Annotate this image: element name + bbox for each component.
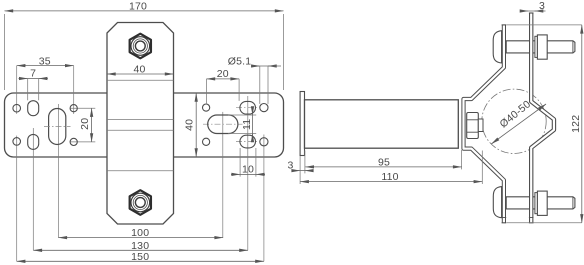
svg-text:3: 3 bbox=[287, 160, 293, 172]
extension 11 bottom bbox=[228, 133, 256, 135]
right plate circles small bbox=[203, 104, 210, 111]
crossed circle bottom bbox=[70, 138, 77, 145]
svg-text:Ø5.1: Ø5.1 bbox=[228, 56, 252, 68]
right circle column: hole top bbox=[260, 104, 268, 112]
center line right oblong column bbox=[247, 96, 249, 250]
center line crossed circles bbox=[73, 66, 75, 114]
extension 95 right bbox=[461, 150, 463, 169]
extension 10 left bbox=[239, 148, 241, 177]
extension 20 left bottom bbox=[70, 141, 95, 143]
bolt bottom: hex nut bbox=[130, 190, 151, 215]
extension line 7 left bbox=[27, 79, 29, 101]
svg-text:40: 40 bbox=[184, 119, 196, 131]
dimension 150 bbox=[17, 260, 264, 262]
base plate front view bbox=[5, 93, 284, 157]
dimension 100 bbox=[58, 237, 223, 239]
svg-text:110: 110 bbox=[381, 171, 398, 183]
center line left slot column bbox=[32, 128, 34, 250]
slot left bottom bbox=[28, 134, 39, 149]
bolt shank top bbox=[506, 41, 575, 53]
hole left circle bottom bbox=[13, 138, 21, 146]
hex nut top side view bbox=[537, 35, 547, 59]
svg-text:122: 122 bbox=[570, 115, 582, 133]
extension 11 top bbox=[228, 114, 256, 116]
clamp strap front (vertical bracket) bbox=[107, 23, 174, 225]
svg-text:20: 20 bbox=[79, 118, 91, 130]
washer top bbox=[535, 36, 538, 57]
center line big slot bbox=[57, 104, 59, 238]
dimension 7 arrows bbox=[19, 78, 28, 80]
extension 110 right bbox=[481, 151, 483, 185]
bolt top: hex nut bbox=[130, 34, 151, 59]
bracket slot line upper bbox=[107, 119, 174, 121]
dimension 11 bbox=[252, 107, 254, 116]
extension 20 left top bbox=[70, 107, 95, 109]
dimension 3 (strap thickness top) bbox=[522, 10, 529, 12]
strap tick marks bbox=[502, 217, 507, 219]
extension line 170 right bbox=[283, 14, 285, 90]
center line right circles bbox=[263, 135, 265, 262]
svg-text:100: 100 bbox=[131, 227, 149, 239]
bracket slot line lower bbox=[107, 129, 174, 131]
tube body bbox=[305, 100, 459, 148]
washer bottom bbox=[535, 193, 538, 214]
small oblong right top bbox=[240, 101, 256, 114]
dimension 40 plate height bbox=[195, 93, 197, 157]
strap end cap lines bbox=[529, 12, 534, 14]
big oblong right bbox=[208, 115, 238, 134]
right strap (clamp around pipe) bbox=[531, 13, 554, 223]
carriage bolt head top bbox=[493, 31, 501, 63]
hex nut bottom side view bbox=[537, 191, 547, 215]
svg-text:10: 10 bbox=[242, 164, 254, 176]
svg-text:170: 170 bbox=[129, 1, 147, 13]
horizontal center right small oblong top bbox=[236, 107, 259, 109]
bolt shank bottom bbox=[506, 197, 575, 209]
dimension 40 bracket bbox=[107, 73, 174, 75]
bracket bend line bottom bbox=[107, 170, 174, 172]
horizontal center right small oblong bottom bbox=[236, 141, 259, 143]
left strap (hat profile) bbox=[464, 25, 504, 223]
dimension 122 bbox=[581, 25, 583, 223]
dimension 10 bbox=[231, 173, 240, 175]
svg-text:95: 95 bbox=[378, 157, 390, 169]
dimension 130 bbox=[33, 249, 248, 251]
center line right big oblong bbox=[222, 112, 224, 238]
dimension 20 right bbox=[207, 78, 240, 80]
wall plate edge view bbox=[300, 92, 304, 156]
svg-text:150: 150 bbox=[131, 251, 149, 263]
slot left top bbox=[28, 101, 39, 116]
svg-text:20: 20 bbox=[217, 68, 229, 80]
nut on strap flat (tube fixing) bbox=[467, 113, 479, 139]
big slot center line horizontal bbox=[44, 126, 71, 128]
extension 122 bottom bbox=[507, 222, 582, 224]
horizontal center right big oblong bbox=[203, 123, 243, 125]
right side: extension 20 bbox=[206, 79, 208, 104]
small oblong right bottom bbox=[240, 135, 256, 148]
carriage bolt head bottom bbox=[493, 187, 501, 218]
svg-text:40: 40 bbox=[133, 63, 145, 75]
big slot left bbox=[49, 109, 66, 145]
svg-text:11: 11 bbox=[241, 119, 253, 130]
dimension 95 bbox=[305, 166, 461, 168]
extension 122 top bbox=[507, 24, 582, 26]
dimension O40-50 diagonal bbox=[491, 104, 546, 144]
bracket bend line top bbox=[107, 79, 174, 81]
dimension 20 left vertical bbox=[91, 108, 93, 142]
dimension Ø5.1 bbox=[251, 65, 260, 67]
dimension 170 bbox=[5, 10, 284, 12]
pipe circle O40-50 (phantom) bbox=[482, 89, 546, 153]
center line left circle column bbox=[16, 66, 18, 114]
svg-text:Ø40-50: Ø40-50 bbox=[498, 98, 534, 130]
svg-text:3: 3 bbox=[539, 0, 545, 12]
svg-text:7: 7 bbox=[30, 68, 36, 80]
extension 10 right bbox=[255, 148, 257, 177]
dimension 3 (wall plate thickness) bbox=[299, 156, 301, 184]
right circle column: hole bottom bbox=[260, 138, 268, 146]
svg-text:35: 35 bbox=[39, 55, 51, 67]
extension lines O5.1 bbox=[259, 66, 261, 104]
extension line 170 left bbox=[4, 14, 6, 90]
extension line 7 right bbox=[38, 79, 40, 101]
dimension 110 bbox=[300, 181, 482, 183]
hole left circle top bbox=[13, 104, 21, 112]
crossed circle top bbox=[70, 105, 77, 112]
dimension 35 bbox=[17, 65, 74, 67]
